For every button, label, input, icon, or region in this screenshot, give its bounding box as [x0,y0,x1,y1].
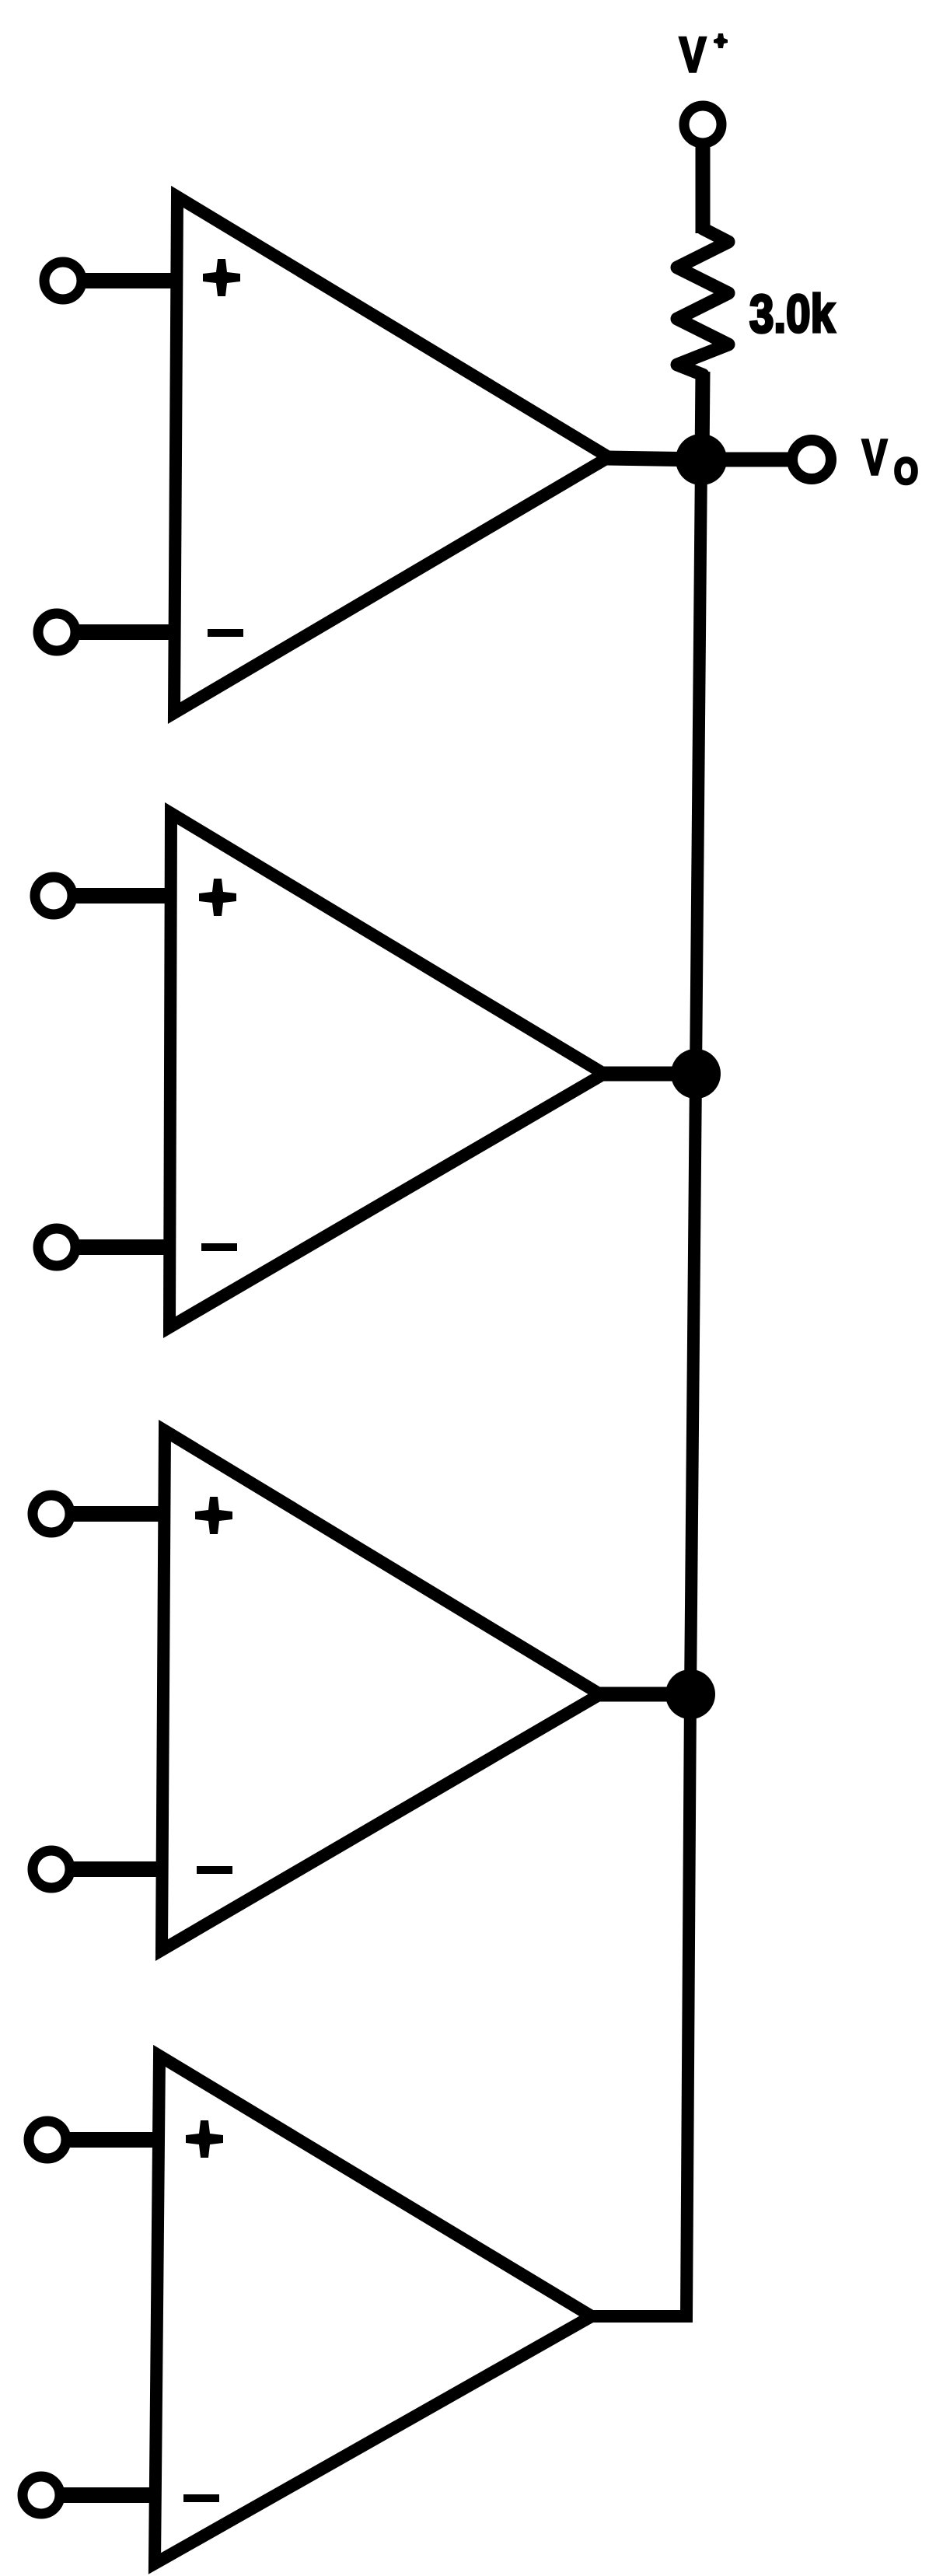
wire U3 + input [68,1506,169,1522]
input terminal U3 - [33,1851,70,1888]
label - input U3 [197,1866,232,1874]
node output junction dot 1 [676,434,727,485]
wire U1 + input [80,273,182,288]
wire output node to Vo terminal [698,453,790,467]
label + input U3 [195,1497,232,1534]
wire U1 output [606,458,701,460]
node output junction dot 3 [665,1669,715,1719]
op-amp U1 (comparator 1) [174,197,609,713]
input terminal U2 - [38,1229,75,1266]
label - input U4 [183,2494,219,2502]
wire U2 + input [71,888,176,904]
svg-text:V: V [679,28,706,82]
resistor R 3.0k [677,229,728,375]
label + input U1 [203,259,240,296]
wire U2 - input [74,1239,175,1255]
wire V+ terminal to resistor [696,146,711,233]
op-amp U4 (comparator 4) [155,2056,592,2564]
input terminal U1 + [44,262,82,299]
wire U1 - input [74,624,180,640]
svg-text:O: O [894,450,918,491]
wire U4 - input [58,2487,160,2503]
power terminal V+ [684,106,721,143]
svg-text:V: V [862,429,887,485]
input terminal U2 + [35,877,72,914]
label + input U2 [199,879,236,916]
label V+ [679,28,728,82]
label - input U1 [208,629,243,637]
wire U3 output [598,1687,690,1702]
node output junction dot 2 [671,1049,721,1099]
input terminal U4 + [29,2121,66,2158]
label + input U4 [186,2120,223,2158]
op-amp U3 (comparator 3) [162,1431,600,1950]
label Vo [862,429,918,491]
wire U2 output [602,1067,696,1082]
wire resistor to output node [702,372,703,463]
input terminal U1 - [38,613,75,651]
svg-text:3.0k: 3.0k [749,284,836,344]
label - input U2 [201,1243,237,1251]
output terminal Vo [792,440,831,479]
wire output bus (node to comparator 4 output) [592,460,701,2316]
op-amp U2 (comparator 2) [169,813,604,1327]
wire U4 + input [65,2132,164,2148]
input terminal U3 + [33,1495,70,1533]
input terminal U4 - [23,2476,60,2514]
wire U3 - input [68,1861,166,1877]
